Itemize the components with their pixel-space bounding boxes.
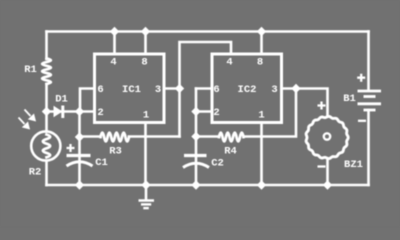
- buzzer BZ1: [306, 116, 348, 158]
- wire buzzer bottom: [326, 160, 329, 186]
- resistor R3: [101, 133, 130, 142]
- plus battery: [357, 74, 365, 82]
- svg-text:R2: R2: [29, 167, 42, 179]
- node C1/R3: [75, 132, 84, 141]
- node pin4 IC1 on rail: [110, 27, 119, 36]
- svg-text:R3: R3: [109, 146, 122, 158]
- resistor R1: [42, 59, 51, 85]
- svg-text:6: 6: [213, 84, 219, 96]
- node IC2 pin3: [291, 84, 300, 93]
- wire C1 branch vertical: [78, 112, 81, 186]
- svg-text:D1: D1: [55, 94, 68, 106]
- capacitor C1: [67, 156, 93, 167]
- wire R2 bottom to bottom rail: [45, 162, 48, 186]
- ground: [139, 185, 155, 208]
- wire top supply rail: [47, 30, 369, 33]
- minus battery: [358, 120, 366, 122]
- node rail IC2 pin1: [257, 180, 266, 189]
- wire IC1 pin3 riser and bypass to IC2 pin4: [180, 42, 232, 137]
- wire battery top: [367, 32, 370, 90]
- svg-text:8: 8: [141, 57, 147, 69]
- wire left vertical top (rail to R1): [45, 32, 48, 60]
- svg-text:3: 3: [155, 84, 161, 96]
- wire IC2 pin1: [260, 123, 263, 185]
- node D1/pin2/pin6: [75, 107, 84, 116]
- junction nodes (diamonds): [42, 27, 332, 190]
- wire R3 left (node to zigzag): [80, 135, 101, 138]
- node C2/R4: [191, 132, 200, 141]
- svg-text:R4: R4: [224, 146, 237, 158]
- node rail ground: [141, 180, 150, 189]
- wire IC1 pin8: [144, 32, 147, 55]
- svg-text:4: 4: [110, 57, 116, 69]
- svg-text:2: 2: [213, 107, 219, 119]
- IC IC1 (timer) box: [95, 54, 165, 123]
- wire bottom rail: [47, 184, 369, 187]
- battery B1: [358, 91, 382, 110]
- wire R4 right to IC2 pin3 riser: [244, 89, 297, 137]
- minus buzzer: [318, 165, 326, 167]
- capacitor C2: [183, 156, 209, 168]
- node IC1 pin3: [175, 84, 184, 93]
- node pin8 IC2 on rail: [257, 27, 266, 36]
- wire R3 right to pin3 riser: [129, 135, 180, 138]
- svg-text:1: 1: [143, 110, 149, 122]
- wire IC1 pin3 stub: [164, 87, 180, 90]
- svg-text:BZ1: BZ1: [344, 159, 363, 171]
- node pin8 IC1 on rail: [141, 27, 150, 36]
- svg-text:4: 4: [226, 57, 232, 69]
- wire C2 branch vertical: [195, 89, 198, 186]
- LDR light arrow 2: [19, 118, 29, 129]
- wire IC2 pin8: [260, 32, 263, 55]
- plus buzzer: [318, 102, 326, 110]
- node R1/R2/D1: [42, 107, 51, 116]
- svg-text:C1: C1: [95, 157, 108, 169]
- wire IC1 pin1 to ground rail: [144, 123, 147, 185]
- IC IC2 (timer) box: [212, 54, 282, 123]
- svg-text:C2: C2: [211, 158, 224, 170]
- LDR light arrow 1: [25, 110, 35, 121]
- node IC2 pin2: [191, 107, 200, 116]
- node rail C1: [75, 180, 84, 189]
- wire D1 row (node to IC1 pin2): [47, 110, 94, 113]
- diode D1: [54, 106, 65, 119]
- wire R1 bottom to R2 top: [45, 84, 48, 132]
- wire battery bottom: [367, 110, 370, 185]
- svg-text:3: 3: [271, 84, 277, 96]
- wire IC2 pin2 stub: [196, 110, 211, 113]
- photoresistor R2 circle: [31, 131, 60, 160]
- svg-text:IC2: IC2: [238, 84, 257, 96]
- plus C1: [67, 144, 75, 152]
- wire R4 left: [196, 135, 219, 138]
- wire IC2 pin6 link: [196, 87, 211, 90]
- plus/minus signs: [67, 74, 367, 167]
- svg-text:2: 2: [97, 107, 103, 119]
- resistor R4: [219, 133, 244, 142]
- resistor zigzag inside R2: [43, 135, 50, 158]
- svg-text:R1: R1: [24, 64, 37, 76]
- svg-text:6: 6: [97, 84, 103, 96]
- wire IC2 pin3 stub: [282, 87, 297, 90]
- svg-text:8: 8: [257, 57, 263, 69]
- svg-text:IC1: IC1: [122, 84, 141, 96]
- wire IC2 pin3 to buzzer: [296, 89, 328, 117]
- svg-text:1: 1: [258, 110, 264, 122]
- node rail buzzer: [323, 180, 332, 189]
- node rail C2: [191, 180, 200, 189]
- wire IC1 pin6 link: [80, 89, 94, 112]
- svg-text:B1: B1: [343, 93, 356, 105]
- wire IC1 pin4: [113, 32, 116, 55]
